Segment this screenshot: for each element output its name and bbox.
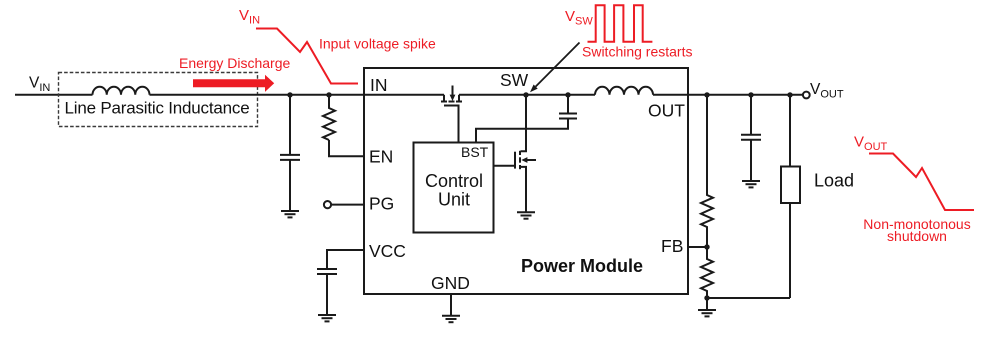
pin FB label [661,236,683,256]
node VIN input terminal label [29,74,50,94]
red label VIN [239,7,260,27]
wire FB pin [688,246,707,248]
svg-text:VCC: VCC [369,241,406,261]
terminal PG open circle [324,201,364,208]
pin IN label [370,75,388,95]
svg-text:EN: EN [369,146,393,166]
resistor R_EN [323,95,335,140]
pin OUT label [648,101,685,121]
resistor R_FB1 upper [701,95,713,247]
pin EN label [369,146,393,166]
capacitor C_IN [280,94,300,211]
node divider bottom [704,295,709,300]
red label VSW [565,8,593,28]
terminal VOUT open circle [803,92,810,99]
svg-text:SW: SW [500,70,529,90]
control unit box [414,143,494,233]
wire OUT to VOUT terminal [653,94,803,96]
wire GND pin [450,294,452,316]
inductor L_OUT [595,87,653,95]
wire VCC [327,250,364,269]
svg-text:IN: IN [370,75,388,95]
label Power Module [521,256,643,276]
label Load [814,171,854,191]
wire load return [707,297,790,299]
pin GND label [431,273,470,293]
ground FB divider [698,310,716,316]
svg-text:Control: Control [425,171,483,191]
label Energy Discharge [179,55,290,71]
capacitor C_VCC [317,269,337,315]
svg-text:PG: PG [369,194,394,214]
ground input cap [281,211,299,217]
node VOUT label [810,81,844,101]
node FB divider tap [704,92,709,97]
red VSW waveform [588,5,653,42]
label Switching restarts [582,44,692,60]
label Control Unit [425,171,483,210]
transistor Q2 low-side FET [515,95,536,213]
svg-text:Energy Discharge: Energy Discharge [179,55,290,71]
ground C_OUT [742,181,760,187]
transistor Q1 high-side FET [441,86,462,106]
svg-text:Load: Load [814,171,854,191]
red arrow energy discharge [193,75,274,92]
svg-text:FB: FB [661,236,683,256]
ground GND pin [442,316,460,322]
svg-text:GND: GND [431,273,470,293]
label Non-monotonous shutdown [863,216,970,244]
node output cap junction [748,92,753,97]
svg-text:Switching restarts: Switching restarts [582,44,692,60]
black arrow to SW node [530,43,580,93]
node FB [704,244,709,249]
svg-text:BST: BST [461,144,489,160]
ground VCC cap [318,315,336,321]
capacitor C_BST bootstrap [476,95,577,143]
red VIN spike waveform [256,29,358,84]
wire inductor to IN pin [150,94,445,96]
label Line Parasitic Inductance [65,99,250,118]
svg-text:OUT: OUT [648,101,685,121]
wire EN [329,140,364,156]
svg-text:Unit: Unit [438,190,470,210]
pin PG label [369,194,394,214]
ground Q2 source [517,212,535,218]
wire divider bottom to ground [706,298,708,310]
wire Q2 gate [494,165,515,167]
svg-text:shutdown: shutdown [887,228,947,244]
dashed box around parasitic inductance [59,73,258,127]
wire input left [15,94,93,96]
wire Q1 gate to control unit [458,106,460,143]
node bootstrap cap junction [565,92,570,97]
load resistor [781,95,800,298]
capacitor C_OUT [741,95,761,181]
red VOUT waveform [869,154,974,211]
label Input voltage spike [319,36,436,52]
node SW [523,92,528,97]
red label VOUT [854,134,888,154]
node EN resistor junction [326,92,331,97]
wire SW to output inductor [459,94,595,96]
pin SW label [500,70,529,90]
pin VCC label [369,241,406,261]
resistor R_FB2 lower [701,247,713,298]
svg-text:Power Module: Power Module [521,256,643,276]
node input cap junction [287,92,292,97]
svg-text:Input voltage spike: Input voltage spike [319,36,436,52]
node load junction [787,92,792,97]
power module box [364,68,688,294]
inductor L_par line parasitic inductance [93,87,150,95]
svg-text:Line Parasitic Inductance: Line Parasitic Inductance [65,99,250,118]
pin BST label [461,144,489,160]
